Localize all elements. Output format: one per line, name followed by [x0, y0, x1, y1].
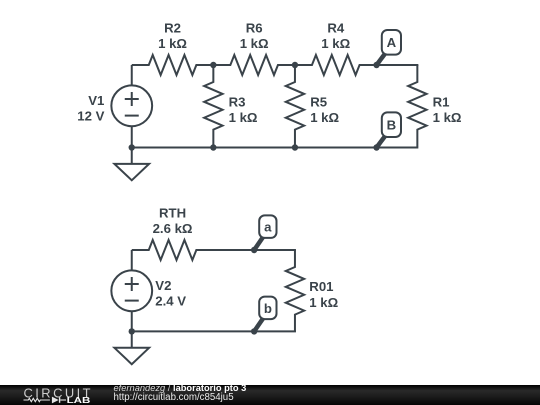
svg-text:R01: R01	[309, 279, 333, 294]
svg-text:LAB: LAB	[67, 394, 91, 404]
voltage source V1	[111, 85, 152, 126]
wire RTH to corner	[212, 249, 296, 251]
svg-text:1 kΩ: 1 kΩ	[309, 295, 338, 310]
wire bottom rail top circuit	[132, 147, 419, 149]
wire top right A to R1	[377, 64, 419, 66]
resistor R01	[286, 250, 339, 332]
resistor R3	[204, 65, 258, 147]
svg-text:R4: R4	[327, 21, 345, 36]
junction V2/ground bottom rail	[129, 328, 135, 334]
footer bar	[0, 385, 540, 405]
resistor R4	[295, 21, 377, 75]
footer credit text	[114, 385, 247, 401]
node B flag	[373, 112, 401, 150]
junction R3 bottom rail	[210, 144, 216, 150]
resistor R1	[408, 65, 462, 147]
svg-text:1 kΩ: 1 kΩ	[433, 110, 462, 125]
node a flag	[251, 215, 277, 253]
wire V2 bottom lead	[131, 311, 133, 331]
svg-text:1 kΩ: 1 kΩ	[240, 36, 269, 51]
junction V1/ground bottom rail	[129, 144, 135, 150]
svg-text:b: b	[264, 301, 272, 316]
svg-text:1 kΩ: 1 kΩ	[310, 110, 339, 125]
svg-text:1 kΩ: 1 kΩ	[321, 36, 350, 51]
V2 name and value label "V2 2.4 V"	[155, 278, 186, 309]
svg-text:a: a	[264, 220, 272, 235]
wire V1 top lead	[131, 65, 133, 85]
svg-text:RTH: RTH	[159, 206, 186, 221]
resistor R6	[213, 21, 295, 75]
circuitlab logo	[0, 385, 110, 405]
svg-text:R2: R2	[164, 21, 181, 36]
svg-text:V1: V1	[88, 93, 104, 108]
svg-text:1 kΩ: 1 kΩ	[229, 110, 258, 125]
ground bottom circuit	[114, 331, 149, 364]
svg-text:A: A	[387, 35, 397, 50]
node b flag	[251, 297, 277, 335]
junction R2/R6/R3 top	[210, 62, 216, 68]
svg-text:R1: R1	[433, 95, 450, 110]
ground top circuit	[114, 148, 149, 181]
svg-text:R3: R3	[229, 95, 246, 110]
wire bottom rail bottom circuit	[132, 330, 296, 332]
junction R6/R4/R5 top	[292, 62, 298, 68]
svg-text:12 V: 12 V	[77, 108, 104, 123]
junction R5 bottom rail	[292, 144, 298, 150]
svg-text:2.6 kΩ: 2.6 kΩ	[153, 221, 193, 236]
svg-text:R5: R5	[310, 95, 327, 110]
svg-text:B: B	[387, 118, 397, 133]
svg-text:2.4 V: 2.4 V	[155, 293, 186, 308]
resistor RTH	[132, 206, 214, 260]
wire V2 top lead	[131, 250, 133, 270]
node A flag	[373, 30, 401, 68]
V1 name and value label "V1 12 V"	[77, 93, 104, 124]
svg-text:1 kΩ: 1 kΩ	[158, 36, 187, 51]
voltage source V2	[111, 270, 152, 311]
wire V1 bottom lead	[131, 126, 133, 147]
svg-text:R6: R6	[246, 21, 263, 36]
svg-text:V2: V2	[155, 278, 171, 293]
resistor R5	[286, 65, 340, 147]
resistor R2	[132, 21, 214, 75]
